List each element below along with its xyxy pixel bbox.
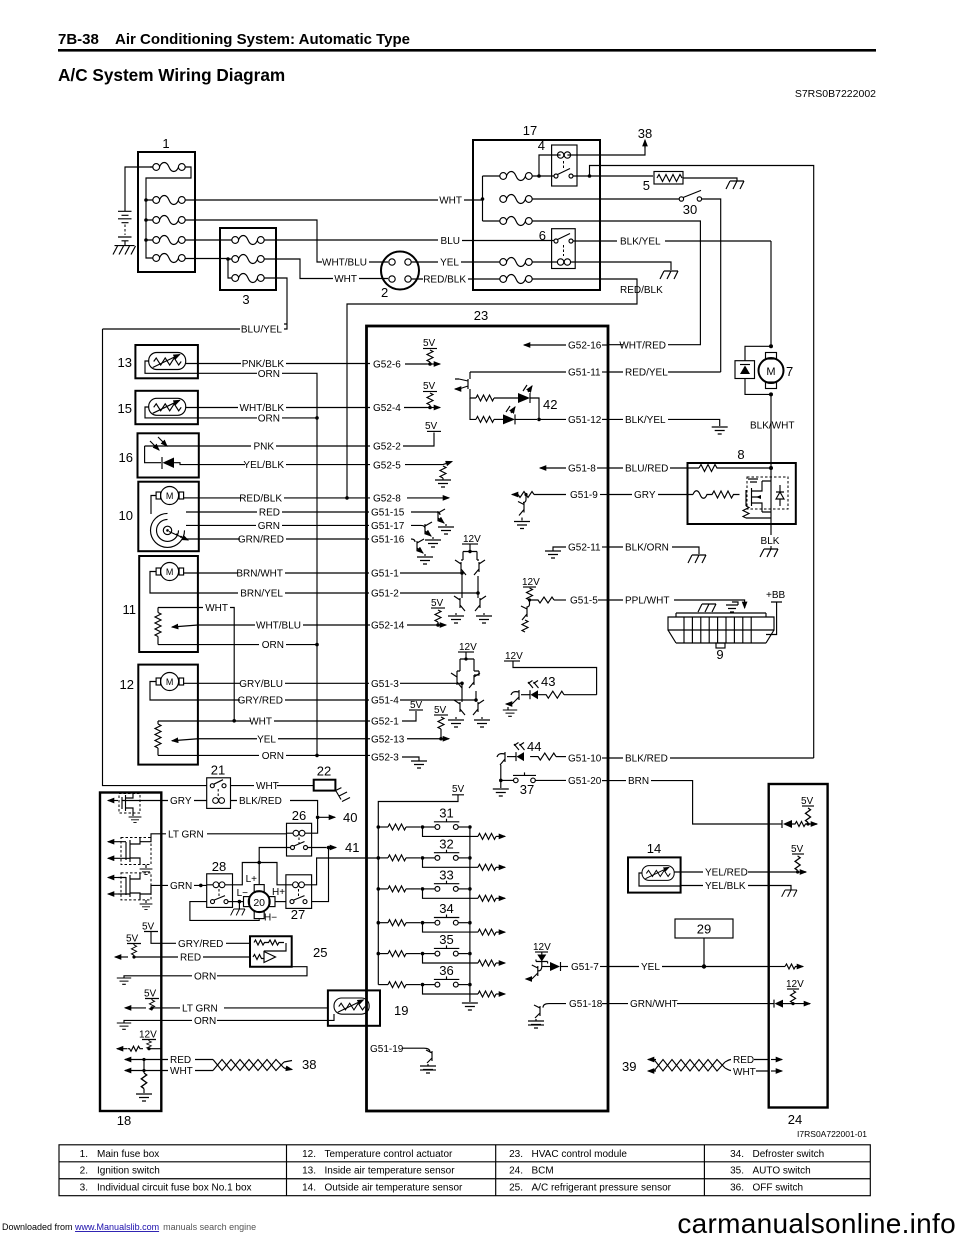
fuse F17-D [500,258,532,267]
svg-text:BLK/ORN: BLK/ORN [625,543,669,554]
HVAC control module box 23 [367,308,609,1111]
svg-text:5V: 5V [410,700,423,711]
svg-text:WHT/BLK: WHT/BLK [240,403,285,414]
ground 777 (YEL/BLK) [782,890,797,897]
wire GRY/RED: box12 to G51-4 [198,696,399,707]
svg-text:15: 15 [118,401,132,416]
svg-text:+BB: +BB [766,590,786,601]
inside air temperature sensor 15 [118,391,198,424]
svg-text:5V: 5V [423,338,436,349]
svg-text:BLK: BLK [761,536,780,547]
wire BLK/RED: G51-10 to right rail [608,754,814,765]
outside air temperature sensor 14 [628,841,681,893]
svg-text:34.: 34. [730,1149,744,1160]
svg-text:GRY/RED: GRY/RED [238,696,283,707]
svg-text:43: 43 [541,674,555,689]
svg-text:Downloaded from www.Manualslib: Downloaded from www.Manualslib.commanual… [2,1222,256,1232]
svg-text:M: M [166,677,174,687]
svg-text:2.: 2. [80,1166,88,1177]
svg-text:40: 40 [343,810,357,825]
wire WHT/RED: fuse C to G52-16 [532,221,700,352]
wire BLU: box3 fuse1 to box 17 relay 6 [264,236,554,247]
wire WHT: box3 fuse2 to connector 2 [264,259,388,285]
box 17 (junction/relay box) [473,123,600,290]
wire loop (box 13) [145,361,198,373]
svg-text:27: 27 [291,907,305,922]
svg-text:12V: 12V [139,1030,157,1041]
wire RED/BLK: box10 to G52-8 [198,494,449,505]
wire LT GRN: box18 to relay 26 coil [161,829,287,840]
5V pull-up (G52-6) [423,338,440,366]
fuse F17-C [500,217,532,226]
main fuse box 1 [138,136,195,272]
svg-text:30: 30 [683,202,697,217]
sense circuit + 12V (G51-5) [521,577,608,632]
motor M (box 11) [150,563,198,594]
sunload sensor 16 [119,433,199,477]
svg-text:L−: L− [237,888,249,899]
fuse F3-3 [232,274,264,283]
wire WHT: fuse B to switch 30 [532,198,679,200]
wire bus left inside box 17 [481,176,500,221]
svg-text:GRN: GRN [170,881,192,892]
svg-text:RED/YEL: RED/YEL [625,368,668,379]
svg-text:S7RS0B7222002: S7RS0B7222002 [795,88,876,100]
MOSFET (box 8) [746,477,788,512]
wire RED/BLK: fuse E down-left to G52-8 bus [345,279,663,500]
svg-text:G51-19: G51-19 [370,1044,404,1055]
wire LT GRN: box18 to sensor 19 [161,1003,328,1014]
5V pull-up + arrow (G52-14) [407,598,446,627]
svg-text:G52-6: G52-6 [373,360,401,371]
ground 777 (connector 9) [698,604,716,612]
fuse F1-1 [153,163,185,172]
svg-text:BLK/YEL: BLK/YEL [625,415,666,426]
svg-text:G51-8: G51-8 [568,464,596,475]
BCM box 24 [769,784,828,1127]
svg-text:GRN/WHT: GRN/WHT [630,999,678,1010]
G51-19 driver [370,1044,436,1073]
svg-text:BLU/YEL: BLU/YEL [241,325,283,336]
wire: motor 20 H+ to relay 27 [272,887,286,902]
svg-text:25: 25 [313,945,327,960]
svg-text:5V: 5V [144,989,157,1000]
svg-text:BLK/WHT: BLK/WHT [750,421,794,432]
svg-text:M: M [166,567,174,577]
svg-text:LT GRN: LT GRN [168,829,204,840]
wire WHT/BLU: box1 fuse3 to connector 2 [185,220,388,269]
svg-text:5V: 5V [126,934,139,945]
svg-text:11: 11 [123,602,137,617]
svg-text:G51-2: G51-2 [371,589,399,600]
ground (BLK/ORN) [688,555,706,563]
temperature control actuator 12 [120,665,198,765]
svg-text:Defroster switch: Defroster switch [753,1149,825,1160]
svg-text:5V: 5V [423,381,436,392]
motor M (box 10) [156,487,184,505]
wire: relay 4 switch to top-right rail [573,166,814,759]
svg-text:G52-8: G52-8 [373,494,401,505]
transistor (G51-17) [411,522,441,547]
svg-text:42: 42 [543,397,557,412]
resistor 5 [643,172,683,194]
fan symbol (box 10) [151,496,199,548]
relay 21 [207,763,231,809]
svg-text:ORN: ORN [194,1016,216,1027]
svg-text:36.: 36. [730,1183,744,1194]
svg-text:24: 24 [788,1112,802,1127]
svg-text:RED/BLK: RED/BLK [239,494,282,505]
svg-text:Main fuse box: Main fuse box [97,1149,159,1160]
diode (motor 7) [735,346,771,394]
svg-text:ORN: ORN [262,640,284,651]
wire PPL/WHT: G51-5 to connector 9 [608,596,745,609]
svg-text:GRN/RED: GRN/RED [238,535,284,546]
svg-text:18: 18 [117,1113,131,1128]
wire + arrow 41 [308,840,360,902]
+BB supply [766,590,786,635]
svg-text:RED/BLK: RED/BLK [620,285,663,296]
svg-text:M: M [166,491,174,501]
wire: box1 fuse4 to box3 fuse1 [185,239,232,241]
svg-text:31: 31 [439,806,453,821]
wire YEL: box12 wiper to G52-13 [198,734,405,745]
ground (G52-11 inside) [545,543,608,559]
svg-text:HVAC control module: HVAC control module [532,1149,628,1160]
page header rule [58,49,876,52]
svg-text:OFF switch: OFF switch [753,1183,804,1194]
svg-text:ORN: ORN [258,414,280,425]
air mix actuator 11 [123,556,198,652]
connector 2 (ignition switch) [381,252,419,301]
svg-text:YEL: YEL [257,734,276,745]
svg-text:17: 17 [523,123,537,138]
svg-text:22: 22 [317,764,331,779]
arrow (G52-16) [524,341,608,352]
BCM diode + 12V (GRN/WHT) [769,979,810,1008]
svg-text:38: 38 [302,1057,316,1072]
svg-text:G51-1: G51-1 [371,569,399,580]
svg-text:12V: 12V [459,642,477,653]
svg-text:12V: 12V [505,651,523,662]
svg-text:36: 36 [439,963,453,978]
svg-text:12: 12 [120,677,134,692]
wire ORN: box12 to G52-3 [158,751,399,764]
svg-text:G52-1: G52-1 [371,717,399,728]
switch row 33 [377,867,506,901]
svg-text:12V: 12V [463,534,481,545]
servo motor 20 [244,885,276,919]
thermistor (box 13) [149,353,186,370]
BCM 5V pull-up (YEL/RED) [769,844,806,874]
svg-text:Inside air temperature sensor: Inside air temperature sensor [325,1166,456,1177]
ground (G52-3) [402,757,427,768]
wire WHT: box1 fuse2 to box 17 [185,196,483,207]
svg-text:41: 41 [345,840,359,855]
fuse F3-1 [232,236,264,245]
wire: fuse D to relay 6 coil, coil to ground [532,262,671,270]
svg-text:M: M [766,366,775,378]
transistor (G51-16) [411,539,433,564]
wire YEL/BLK: box16 to G52-5 [191,460,401,472]
ground (resistor 5) [726,181,744,189]
svg-text:G51-9: G51-9 [570,490,598,501]
svg-text:G52-4: G52-4 [373,403,401,414]
fuse F1-3 [153,216,185,225]
potentiometer (box 12) [155,721,198,755]
svg-text:G51-7: G51-7 [571,962,599,973]
fuse F3-2 [232,255,264,264]
svg-text:GRY/BLU: GRY/BLU [239,679,283,690]
svg-text:GRN: GRN [258,521,280,532]
wire: relay28 switch right to L- / ground [228,888,248,915]
svg-text:G52-5: G52-5 [373,461,401,472]
wire YEL: connector 2 to box 17 fuse D [411,258,500,269]
legend table [59,1145,870,1196]
svg-text:G51-18: G51-18 [569,999,603,1010]
svg-text:PNK: PNK [253,442,274,453]
switch row 36 [378,963,505,997]
box18 12V pull-up (BLU/WHT) [117,1030,161,1052]
wire ORN: box15 to bus [198,414,319,645]
svg-text:Temperature control actuator: Temperature control actuator [325,1149,454,1160]
wire + ground after resistor 5 [683,178,737,181]
svg-text:Outside air temperature sensor: Outside air temperature sensor [325,1183,464,1194]
svg-text:16: 16 [119,450,133,465]
BCM resistor + arrow (YEL) [769,964,803,969]
wire: relay28 coil to L+ node [233,863,260,885]
wire BLK/YEL: relay 6 switch to blower motor 7 [573,237,771,347]
wire WHT/BLU: box11 wiper to G52-14 [198,621,405,632]
svg-text:WHT: WHT [334,274,357,285]
svg-text:32: 32 [439,836,453,851]
svg-text:G51-11: G51-11 [568,368,601,379]
svg-text:12V: 12V [786,979,804,990]
svg-text:3: 3 [242,292,249,307]
svg-text:G52-11: G52-11 [568,543,601,554]
svg-text:BLU: BLU [441,236,460,247]
fuse F17-B [500,195,532,204]
12V H-bridge driver (G51-1/G51-2) [400,534,492,623]
svg-text:WHT: WHT [170,1066,193,1077]
svg-text:5: 5 [643,178,650,193]
svg-text:19: 19 [394,1003,408,1018]
rear defogger 22 [314,764,350,802]
svg-text:25.: 25. [509,1183,523,1194]
svg-text:WHT/BLU: WHT/BLU [256,621,301,632]
svg-text:PPL/WHT: PPL/WHT [625,596,669,607]
thermistor (box 19) [334,998,369,1014]
BCM input diode + 5V (BRN pin) [769,796,817,828]
svg-text:G51-16: G51-16 [371,535,405,546]
svg-text:RED: RED [733,1055,754,1066]
svg-text:5V: 5V [791,844,804,855]
arrow + resistor + ground (G52-5) [405,462,452,488]
svg-text:G51-17: G51-17 [371,521,405,532]
wire BLU/RED: G51-8 to box 8 [608,464,699,475]
LED 44 (G51-10) [497,739,608,780]
connector 9 [668,613,774,662]
svg-text:RED: RED [170,1055,191,1066]
wire BRN: G51-20 to BCM [608,776,769,824]
svg-text:H−: H− [264,913,277,924]
svg-text:23: 23 [474,308,488,323]
svg-text:LT GRN: LT GRN [182,1003,218,1014]
svg-text:5V: 5V [431,598,444,609]
wire BLK/RED: relay 21 coil to arrow 40 / relay 26 [231,796,358,833]
svg-text:GRY: GRY [634,490,656,501]
svg-text:RED: RED [180,953,201,964]
svg-text:G51-3: G51-3 [371,679,399,690]
thermistor (box 15) [149,398,186,415]
svg-text:GRY: GRY [170,796,192,807]
svg-text:ORN: ORN [258,369,280,380]
svg-text:34: 34 [439,901,453,916]
inside air temperature sensor 13 [118,345,198,378]
wire PNK: box16 to G52-2 [145,442,402,453]
svg-text:14: 14 [647,841,661,856]
svg-text:Air Conditioning System: Autom: Air Conditioning System: Automatic Type [115,31,410,48]
svg-text:YEL/BLK: YEL/BLK [705,881,746,892]
wire GRN/WHT: G51-18 to BCM [608,999,769,1010]
wire YEL/RED: box14 to BCM [674,868,769,879]
box 8 (blower power module) [688,447,796,524]
svg-text:AUTO switch: AUTO switch [753,1166,811,1177]
svg-text:BLU/RED: BLU/RED [625,464,668,475]
relay 6 [539,228,575,269]
svg-text:26: 26 [292,808,306,823]
svg-text:L+: L+ [246,874,258,885]
relay 26 [287,808,312,856]
blower unit 10 [119,482,199,552]
fuse F17-A [500,172,532,181]
svg-text:39: 39 [622,1059,636,1074]
svg-text:I7RS0A722001-01: I7RS0A722001-01 [797,1129,867,1139]
wire GRY: box18 to relay 21 coil [161,796,207,807]
svg-text:A/C refrigerant pressure senso: A/C refrigerant pressure sensor [532,1183,672,1194]
svg-text:G51-20: G51-20 [568,776,602,787]
right bus + ground (switch panel) [462,827,478,1010]
5V pull-up (G52-4) [423,381,440,409]
relay 27 [286,875,312,922]
svg-text:WHT: WHT [256,781,279,792]
svg-text:G51-12: G51-12 [568,415,602,426]
LED 43 + 12V [503,651,597,716]
svg-text:4: 4 [538,138,545,153]
wire loop (box 14) [639,873,681,886]
transistor (G51-15) [411,509,454,534]
wire BRN/YEL: box11 to G51-2 [198,589,399,600]
MOSFET driver C (box 18) [108,873,161,910]
svg-text:7B-38: 7B-38 [58,31,99,48]
svg-text:2: 2 [381,285,388,300]
svg-text:7: 7 [786,364,793,379]
wire RED: box18 to sensor 25 [161,953,250,964]
5V pull-up + arrow (G52-13) [407,705,449,741]
wire WHT: relay 21 to defroster 22 [231,781,314,792]
svg-text:5V: 5V [142,922,155,933]
box18 5V pull-up (RED) [115,934,161,959]
svg-text:5V: 5V [434,705,447,716]
wire WHT/BLK: box15 to G52-4 [186,403,427,414]
arrow (G51-8) [540,464,608,475]
svg-text:RED: RED [259,508,280,519]
svg-text:Ignition switch: Ignition switch [97,1166,160,1177]
svg-text:YEL/RED: YEL/RED [705,868,748,879]
wire bus inside box 3 [226,257,232,278]
ground (relay 6 coil) [660,271,678,279]
svg-text:5V: 5V [452,784,465,795]
twisted pair 39 to BCM [622,1055,782,1078]
wire RED: box10 to G51-15 [186,508,405,519]
svg-text:WHT: WHT [439,196,462,207]
thermistor (box 14) [642,866,674,881]
svg-text:WHT/RED: WHT/RED [619,341,666,352]
svg-text:1: 1 [162,136,169,151]
svg-text:G51-10: G51-10 [568,754,602,765]
svg-text:35.: 35. [730,1166,744,1177]
switch row 34 [377,901,506,935]
G51-18 driver [528,999,608,1028]
wire GRN: box10 to G51-17 [186,521,405,532]
wire ORN: box18 to sensor 19 [117,1014,334,1029]
svg-text:BLK/YEL: BLK/YEL [620,237,661,248]
svg-text:BCM: BCM [532,1166,554,1177]
svg-text:29: 29 [697,922,711,937]
battery [118,167,153,246]
wire YEL/BLK: box14 to ground in BCM [681,881,791,892]
svg-text:12V: 12V [533,942,551,953]
box18 5V pull-up (LT GRN) [125,989,161,1011]
ground (battery) [113,246,136,255]
svg-text:21: 21 [211,763,225,778]
svg-text:YEL: YEL [641,962,660,973]
svg-text:A/C System Wiring Diagram: A/C System Wiring Diagram [58,65,285,85]
svg-text:5V: 5V [425,421,438,432]
wire: relay27 coil to box 23 [312,858,379,885]
wire loop (box 15) [145,407,198,418]
wire GRY/BLU: box12 to G51-3 [198,679,399,690]
wire BLU/YEL: box3 fuse3 to relay 21 [103,278,288,786]
svg-text:23.: 23. [509,1149,523,1160]
relay module box 18 [100,793,161,1129]
twisted pair 38 [161,1055,316,1077]
LED pair 42 + driver (G51-11/G51-12) [455,368,608,427]
resistor (box 8 top) [699,465,773,472]
svg-text:ORN: ORN [262,751,284,762]
wire ORN: box11 to bus [158,640,319,755]
svg-text:1.: 1. [80,1149,88,1160]
potentiometer (box 11) [155,608,198,645]
svg-text:10: 10 [119,508,133,523]
wire PNK/BLK: box13 to G52-6 [186,359,427,371]
svg-text:38: 38 [638,126,652,141]
svg-text:BRN/YEL: BRN/YEL [240,589,283,600]
12V H-bridge driver (G51-3/G51-4) [400,642,490,727]
svg-text:9: 9 [716,647,723,662]
gate pull-down resistor (box 8) [743,468,771,535]
A/C refrigerant pressure sensor 25 [250,936,327,967]
svg-text:YEL: YEL [440,258,459,269]
wire: box1 fuse5 to box3 bus [185,258,228,260]
5V tie (G52-2) [403,421,441,446]
wire BLK + ground (box 8) [761,536,780,549]
switch row 35 [377,932,506,966]
box18 RED/WHT arrows + termination [125,1058,161,1101]
wire: fuse A to relay 4 [532,155,561,178]
wire BLK/YEL: G51-12 to ground [608,415,728,434]
thermal fuse + resistor (box 8) [693,491,740,499]
